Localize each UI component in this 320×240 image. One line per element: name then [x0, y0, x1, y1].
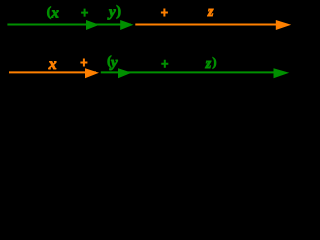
arrowhead end of z (orange)	[276, 20, 291, 30]
arrowhead end of y (green)	[118, 68, 132, 78]
diagram: associativity of path concatenation, two labelled arrows	[0, 0, 300, 91]
label + green	[161, 60, 168, 68]
svg-text:z: z	[207, 4, 214, 20]
wire: orange segment x	[9, 71, 96, 73]
svg-text:x: x	[48, 56, 57, 73]
svg-text:): )	[116, 3, 121, 19]
arrowhead end of y (green)	[120, 20, 133, 30]
wire: green segment y+z	[101, 71, 283, 73]
label + orange	[80, 59, 87, 67]
wire: green segment x+y	[7, 24, 131, 26]
arrowhead end of z (green)	[274, 68, 290, 78]
svg-text:y: y	[107, 4, 116, 20]
svg-text:): )	[212, 54, 216, 69]
svg-text:x: x	[50, 5, 59, 21]
svg-text:z: z	[205, 56, 212, 72]
label + orange	[161, 9, 168, 17]
svg-text:y: y	[109, 55, 118, 71]
label + green	[81, 9, 88, 17]
arrowhead end of x (green)	[86, 20, 99, 30]
wire: orange segment z	[135, 24, 284, 26]
arrowhead end of x (orange)	[85, 68, 99, 78]
